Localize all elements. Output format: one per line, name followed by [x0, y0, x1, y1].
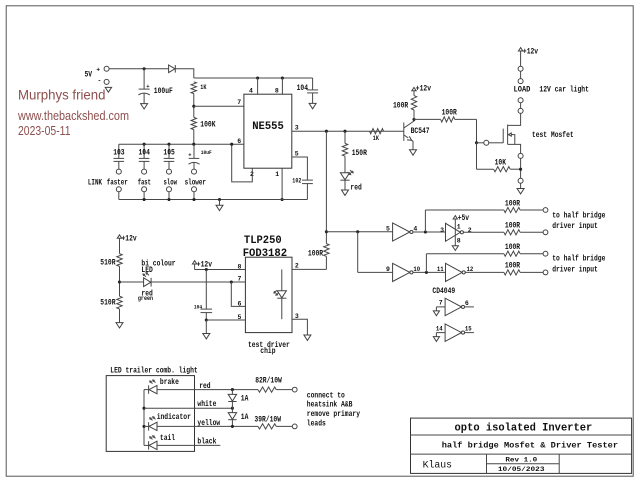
svg-text:102: 102	[292, 177, 301, 184]
wire opto pin8	[195, 264, 246, 271]
resistor 100R drive row2	[504, 221, 543, 235]
svg-text:4: 4	[249, 87, 253, 94]
svg-text:driver input: driver input	[552, 265, 598, 274]
inverter U3A pins 5-4	[386, 223, 417, 241]
svg-text:104: 104	[139, 149, 151, 158]
resistor 100R drive row3	[504, 243, 543, 256]
IC U2 TLP250 FOD3182 body	[243, 235, 292, 332]
wire source to 10K	[519, 158, 522, 178]
ground inverter F input	[433, 333, 439, 342]
wire inverter B output	[464, 231, 504, 233]
svg-text:100R: 100R	[393, 101, 408, 110]
svg-text:100R: 100R	[505, 261, 520, 270]
connector drive output 1	[543, 208, 548, 213]
svg-text:yellow: yellow	[197, 419, 220, 428]
wire 5V rail	[109, 67, 168, 70]
wire red	[157, 382, 258, 391]
svg-text:82R/10W: 82R/10W	[255, 377, 282, 386]
ground below red LED	[342, 190, 349, 195]
svg-text:LED: LED	[141, 266, 153, 275]
wire opto pin6 link	[231, 282, 245, 306]
wire opto pin3 to ground	[292, 319, 311, 340]
junction BC547 collector	[412, 118, 415, 121]
svg-text:heatsink A&B: heatsink A&B	[307, 401, 353, 410]
wire black	[157, 438, 220, 447]
svg-text:39R/10W: 39R/10W	[254, 416, 281, 425]
resistor 1K vertical	[191, 82, 207, 94]
svg-text:1: 1	[275, 171, 279, 178]
label to half bridge driver input lower	[552, 255, 605, 275]
connector load terminals upper	[518, 51, 523, 84]
wire 100K to pin6 bus	[193, 130, 195, 145]
connector load terminals lower	[508, 98, 523, 126]
svg-text:to half bridge: to half bridge	[552, 255, 605, 264]
wire NE555 pin4 stub	[257, 78, 259, 94]
svg-text:+: +	[188, 151, 192, 158]
svg-text:+: +	[96, 66, 100, 73]
svg-text:8: 8	[275, 87, 279, 94]
wire diode to VCC node	[175, 69, 194, 78]
svg-text:510R: 510R	[100, 259, 115, 268]
link terminals for 104	[142, 169, 147, 199]
svg-text:NE555: NE555	[252, 121, 284, 133]
diode D1	[169, 65, 176, 73]
wire NE555 pin5	[292, 157, 308, 180]
diode 1A lower	[228, 408, 248, 426]
svg-text:TLP250: TLP250	[244, 235, 282, 247]
resistor 150R	[342, 131, 367, 158]
LED brake	[144, 378, 179, 394]
svg-text:green: green	[138, 295, 154, 302]
svg-text:150R: 150R	[352, 149, 367, 158]
svg-text:11: 11	[437, 266, 444, 273]
svg-text:black: black	[197, 438, 216, 447]
svg-text:to half bridge: to half bridge	[552, 212, 605, 221]
resistor 100R collector pullup	[393, 91, 417, 120]
svg-text:CD4049: CD4049	[432, 287, 455, 296]
svg-text:LINK: LINK	[88, 178, 102, 187]
power +5v inverter	[453, 214, 469, 246]
connector drive output 2	[543, 230, 548, 235]
connector gate terminal	[484, 140, 503, 145]
wire opto pin2	[292, 268, 326, 270]
svg-text:100K: 100K	[200, 121, 215, 130]
link terminals for 105	[167, 169, 172, 199]
power +12v opto vcc	[192, 260, 212, 269]
ground below 100uF	[141, 104, 148, 109]
wire 1K to 100K	[192, 94, 195, 118]
watermark author text	[17, 88, 129, 138]
capacitor 105	[163, 144, 175, 169]
svg-text:100R: 100R	[505, 221, 520, 230]
wire opto pin5	[206, 319, 245, 321]
capacitor 100uF	[138, 69, 173, 104]
svg-text:+12v: +12v	[523, 47, 538, 56]
capacitor 10uF	[188, 144, 212, 169]
svg-text:15: 15	[465, 325, 472, 332]
ground below inverter B	[452, 246, 458, 251]
svg-text:half bridge Mosfet & Driver T: half bridge Mosfet & Driver Tester	[442, 441, 618, 451]
wire white	[144, 400, 234, 410]
inverter U3C pins 9-10	[386, 263, 420, 281]
LED indicator	[144, 413, 191, 431]
inverter U3B pins 3-2	[440, 223, 472, 244]
wire yellow	[157, 419, 258, 428]
svg-text:remove primary: remove primary	[307, 410, 360, 419]
svg-text:8: 8	[457, 237, 461, 244]
svg-text:9: 9	[386, 266, 390, 273]
transistor Q1 BC547	[404, 119, 430, 149]
note connect to heatsink	[307, 391, 360, 428]
inverter U3E pins 7-6	[436, 298, 474, 316]
svg-text:7: 7	[439, 300, 443, 307]
svg-text:+5v: +5v	[458, 214, 470, 223]
LED bi colour	[120, 260, 246, 302]
wire inverter A output	[413, 210, 504, 234]
ground below mosfet chain	[517, 189, 524, 194]
trailer light box	[106, 376, 194, 452]
svg-text:5V: 5V	[85, 71, 93, 80]
svg-text:LED trailer comb. light: LED trailer comb. light	[110, 366, 198, 375]
connector J1 5V plus terminal	[85, 66, 110, 79]
LED red indicator	[340, 156, 362, 192]
ground below 510R	[116, 309, 123, 328]
svg-text:slower: slower	[185, 178, 207, 187]
capacitor 103	[113, 144, 125, 169]
svg-text:100uF: 100uF	[154, 87, 173, 96]
svg-text:10uF: 10uF	[201, 149, 212, 156]
svg-text:10: 10	[413, 266, 420, 273]
svg-text:1A: 1A	[241, 413, 249, 422]
svg-text:14: 14	[436, 325, 443, 332]
svg-text:12: 12	[467, 266, 474, 273]
svg-text:5: 5	[386, 225, 390, 232]
svg-text:1: 1	[457, 224, 461, 231]
svg-text:faster: faster	[107, 178, 128, 187]
svg-text:10/05/2023: 10/05/2023	[498, 466, 545, 473]
svg-text:104: 104	[194, 304, 203, 311]
svg-text:driver input: driver input	[552, 222, 598, 231]
junction opto pin7	[230, 280, 233, 283]
svg-text:test Mosfet: test Mosfet	[532, 131, 574, 140]
svg-text:1K: 1K	[200, 84, 206, 91]
capacitor 104 bypass	[297, 78, 319, 103]
power +12v opto left	[117, 235, 137, 244]
svg-text:100R: 100R	[308, 250, 323, 259]
ground below 104	[309, 103, 316, 108]
wire gate node	[475, 119, 484, 144]
svg-text:Murphys friend: Murphys friend	[18, 88, 106, 103]
resistor 100R gate drive	[414, 108, 477, 122]
svg-text:red: red	[350, 183, 362, 192]
resistor 100R drive row1	[504, 199, 543, 212]
svg-text:chip: chip	[260, 347, 275, 356]
power +12v above 100R	[412, 85, 431, 94]
svg-text:2023-05-11: 2023-05-11	[18, 123, 71, 138]
svg-text:Klaus: Klaus	[423, 460, 453, 472]
wire 510R middle	[118, 266, 121, 296]
svg-text:Rev 1.0: Rev 1.0	[505, 457, 537, 464]
wire pin6 bus	[119, 143, 244, 146]
svg-text:2: 2	[295, 262, 299, 269]
label LOAD 12V car light	[514, 86, 590, 95]
wire inverter C output	[413, 254, 504, 274]
label LINK speeds	[88, 178, 206, 187]
svg-text:FOD3182: FOD3182	[243, 248, 287, 260]
resistor 82R/10W	[255, 377, 292, 393]
svg-text:100R: 100R	[505, 243, 520, 252]
svg-text:100R: 100R	[442, 108, 457, 117]
inverter U3D pins 11-12	[437, 263, 473, 281]
svg-text:100R: 100R	[505, 199, 520, 208]
resistor 100R opto input	[308, 131, 329, 269]
svg-text:connect to: connect to	[307, 391, 345, 400]
diode 1A upper	[228, 390, 248, 409]
link terminals for 10uF	[192, 169, 197, 199]
wire inverter D output	[465, 271, 504, 273]
svg-text:3: 3	[440, 227, 444, 234]
svg-text:1K: 1K	[373, 135, 379, 142]
ground at 5V minus	[105, 87, 111, 92]
connector source terminal	[518, 153, 523, 158]
connector drive output 4	[543, 270, 548, 275]
connector drive output 3	[543, 251, 548, 256]
svg-text:+12v: +12v	[197, 260, 212, 269]
svg-text:white: white	[197, 400, 216, 409]
svg-text:red: red	[199, 382, 211, 391]
capacitor 104 opto	[194, 270, 212, 322]
svg-text:7: 7	[237, 99, 241, 106]
svg-text:103: 103	[113, 149, 125, 158]
resistor 100K	[191, 117, 216, 129]
resistor 100R drive row4	[504, 261, 543, 275]
wire NE555 pin2 loop	[232, 144, 253, 182]
link terminals for 103	[116, 169, 121, 199]
wire NE555 pin3 output	[292, 130, 404, 133]
resistor 1K base	[370, 129, 384, 142]
svg-text:-: -	[98, 78, 102, 85]
ground on bus	[216, 200, 223, 211]
svg-text:5: 5	[238, 314, 242, 321]
connector J1 5V minus terminal	[98, 78, 110, 85]
svg-text:brake: brake	[160, 378, 179, 387]
svg-text:+12v: +12v	[122, 235, 137, 244]
wire pin3 to inverter inputs	[326, 230, 392, 272]
wire NE555 pin8 stub	[281, 78, 283, 94]
wire NE555 pin1	[281, 168, 284, 201]
svg-text:slow: slow	[164, 178, 178, 187]
svg-text:104: 104	[297, 84, 309, 93]
resistor 10K	[477, 143, 521, 172]
svg-text:tail: tail	[160, 434, 175, 443]
capacitor 104	[139, 144, 151, 169]
wire ground bus	[119, 198, 308, 201]
svg-text:2: 2	[468, 227, 472, 234]
svg-text:fast: fast	[138, 178, 151, 187]
transistor test Mosfet	[503, 125, 574, 154]
label test driver chip	[248, 341, 290, 356]
svg-text:7: 7	[238, 275, 242, 282]
svg-text:www.thebackshed.com: www.thebackshed.com	[17, 108, 129, 123]
ground inverter E input	[433, 307, 439, 316]
svg-text:12V car light: 12V car light	[539, 86, 589, 95]
inverter U3F pins 14-15	[436, 324, 474, 342]
wire trailer common	[142, 390, 145, 446]
resistor 510R upper	[100, 238, 122, 267]
title block frame	[411, 418, 632, 473]
svg-text:105: 105	[163, 149, 175, 158]
connector bottom terminal	[518, 178, 523, 188]
svg-text:8: 8	[238, 263, 242, 270]
wire NE555 pin7	[194, 105, 244, 107]
svg-text:BC547: BC547	[411, 127, 430, 136]
connector yellow output	[292, 424, 297, 429]
LED tail	[144, 434, 175, 450]
opto internal LED	[274, 269, 287, 319]
svg-text:indicator: indicator	[157, 413, 191, 422]
connector red output	[292, 387, 297, 392]
IC U1 NE555 body	[244, 94, 292, 168]
svg-text:leads: leads	[307, 419, 326, 428]
resistor 39R/10W	[254, 416, 292, 430]
ground below opto cap	[203, 320, 210, 339]
svg-text:+12v: +12v	[416, 85, 431, 94]
power +12v load	[518, 47, 538, 56]
svg-text:510R: 510R	[100, 299, 115, 308]
ground at BC547 emitter	[410, 150, 417, 155]
svg-text:LOAD: LOAD	[514, 86, 531, 95]
label to half bridge driver input upper	[552, 212, 605, 231]
svg-text:opto isolated Inverter: opto isolated Inverter	[455, 423, 593, 435]
svg-text:3: 3	[295, 124, 299, 131]
wire VCC top bus	[194, 76, 313, 79]
svg-text:10K: 10K	[495, 159, 507, 168]
capacitor 102	[292, 177, 313, 199]
svg-text:4: 4	[413, 225, 417, 232]
resistor 510R lower	[100, 296, 122, 309]
svg-text:1A: 1A	[241, 395, 249, 404]
svg-text:6: 6	[238, 300, 242, 307]
svg-text:6: 6	[465, 300, 469, 307]
